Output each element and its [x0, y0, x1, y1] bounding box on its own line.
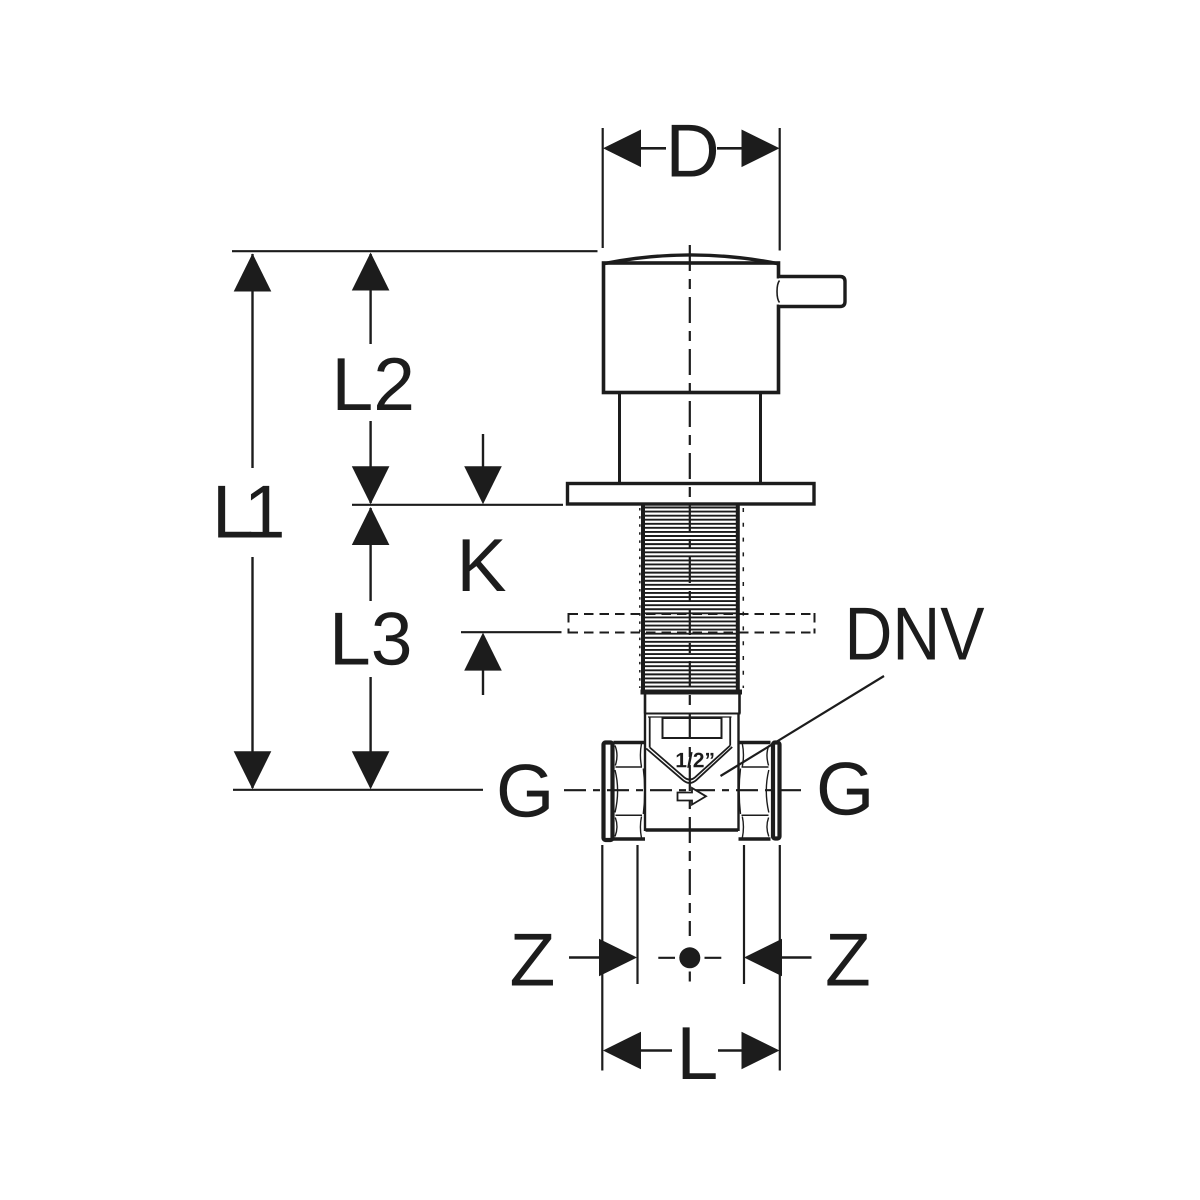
- svg-text:L: L: [677, 1011, 719, 1095]
- inner window rectangle: [663, 718, 722, 738]
- top reference extension line: [232, 250, 598, 252]
- svg-text:G: G: [816, 747, 874, 831]
- lower outer extension lines: [601, 845, 603, 1071]
- center point mark: [679, 947, 700, 968]
- neck: [620, 394, 761, 484]
- dimension L2: [369, 254, 371, 503]
- dimension Z left: [569, 956, 601, 959]
- svg-text:Z: Z: [825, 918, 871, 1002]
- spout stub: [777, 279, 789, 305]
- right end cap: [773, 743, 780, 839]
- flange-bottom reference extension line: [352, 504, 563, 506]
- svg-text:Z: Z: [510, 918, 556, 1002]
- horizontal pipe axis center line: [564, 789, 808, 791]
- flow arrow: [678, 788, 707, 805]
- left union nut: [614, 743, 646, 840]
- vertical center line: [689, 245, 691, 936]
- 1/2" marking: [677, 752, 714, 768]
- threaded rod: [645, 508, 736, 687]
- DNV leader line: [721, 676, 885, 776]
- dimension K: [482, 434, 484, 467]
- svg-text:K: K: [457, 523, 507, 607]
- svg-text:G: G: [496, 749, 554, 833]
- lower inner extension lines: [636, 845, 638, 984]
- valve neck band: [644, 695, 741, 718]
- wall-bottom reference line (K): [461, 631, 562, 633]
- svg-text:DNV: DNV: [845, 592, 985, 676]
- dimension L1: [251, 254, 253, 788]
- wall dashed band: [569, 613, 816, 634]
- svg-text:L1: L1: [212, 470, 283, 554]
- valve central body: [645, 714, 739, 832]
- left end cap: [604, 743, 613, 841]
- flange: [568, 484, 815, 505]
- svg-text:L3: L3: [329, 597, 412, 681]
- dimension L: [641, 1049, 672, 1052]
- pipe-axis reference extension line: [233, 789, 483, 791]
- svg-text:L2: L2: [332, 342, 415, 426]
- svg-text:D: D: [666, 109, 720, 193]
- dimension D extension lines: [602, 128, 604, 248]
- dimension L3: [369, 508, 371, 787]
- right union nut: [739, 743, 771, 840]
- funnel cone: [646, 718, 732, 784]
- cap (valve head): [603, 255, 779, 393]
- rod bottom collar bar: [641, 690, 743, 695]
- dimension D: [641, 147, 666, 150]
- dimension Z right: [781, 956, 812, 959]
